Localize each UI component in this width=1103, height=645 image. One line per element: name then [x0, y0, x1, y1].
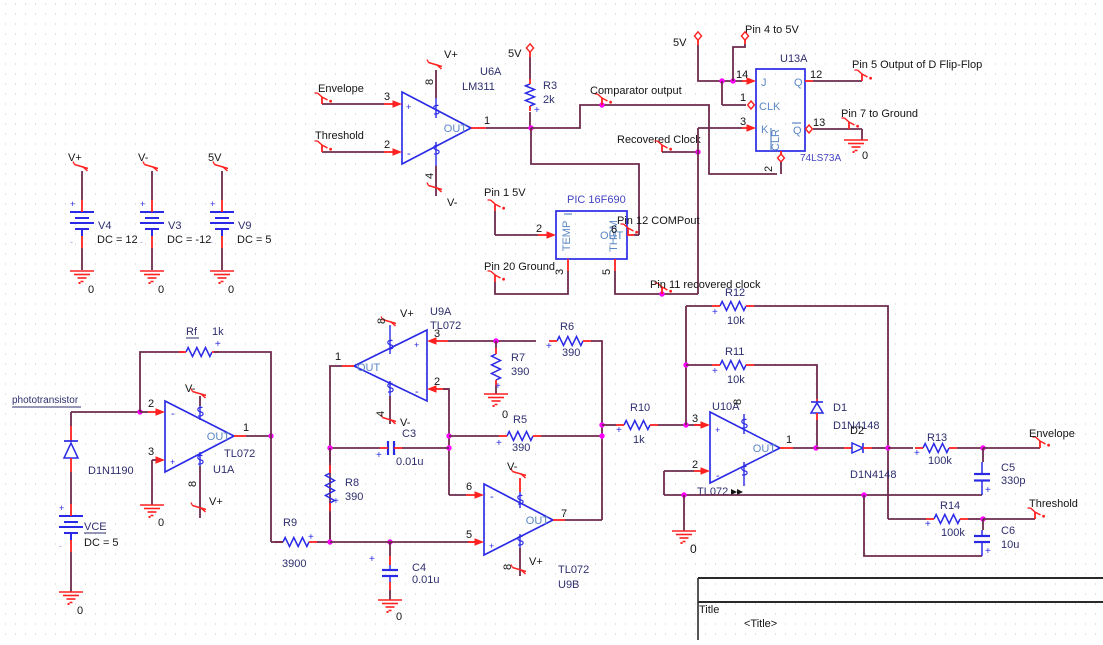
svg-text:Rf: Rf — [186, 326, 198, 338]
svg-text:R9: R9 — [283, 517, 297, 529]
svg-text:10u: 10u — [1001, 539, 1019, 551]
svg-text:+: + — [369, 554, 375, 565]
svg-text:3900: 3900 — [282, 558, 306, 570]
svg-text:6: 6 — [466, 481, 472, 493]
svg-text:V+: V+ — [444, 49, 458, 61]
svg-text:CLR: CLR — [770, 129, 782, 151]
svg-text:3: 3 — [554, 269, 566, 275]
svg-text:phototransistor: phototransistor — [12, 395, 79, 406]
svg-text:+: + — [210, 199, 215, 209]
svg-text:+: + — [376, 450, 382, 461]
svg-text:+: + — [715, 425, 720, 435]
svg-text:7: 7 — [561, 508, 567, 520]
svg-text:-: - — [210, 237, 213, 247]
svg-text:390: 390 — [511, 366, 529, 378]
svg-text:13: 13 — [813, 117, 825, 129]
svg-text:R10: R10 — [630, 402, 650, 414]
svg-text:+: + — [59, 503, 64, 513]
svg-text:+: + — [140, 199, 145, 209]
svg-text:Recovered Clock: Recovered Clock — [617, 134, 701, 146]
svg-text:U1A: U1A — [213, 464, 235, 476]
svg-text:V+: V+ — [400, 308, 414, 320]
svg-text:+: + — [215, 339, 221, 350]
svg-text:U13A: U13A — [780, 53, 808, 65]
svg-text:0: 0 — [158, 284, 164, 296]
svg-text:Pin 1 5V: Pin 1 5V — [484, 187, 526, 199]
svg-text:8: 8 — [424, 79, 436, 85]
svg-text:14: 14 — [736, 69, 748, 81]
svg-text:V3: V3 — [168, 220, 181, 232]
svg-text:0: 0 — [690, 542, 697, 556]
svg-text:Pin 7 to Ground: Pin 7 to Ground — [841, 108, 918, 120]
svg-text:Pin 4 to 5V: Pin 4 to 5V — [745, 24, 799, 36]
svg-text:0: 0 — [228, 284, 234, 296]
svg-text:OUT: OUT — [753, 443, 777, 455]
svg-text:+: + — [712, 366, 718, 377]
svg-text:R14: R14 — [940, 500, 960, 512]
svg-text:8: 8 — [376, 318, 388, 324]
svg-text:2k: 2k — [543, 94, 555, 106]
svg-text:R8: R8 — [345, 477, 359, 489]
svg-text:TL072: TL072 — [558, 564, 589, 576]
svg-text:3: 3 — [740, 116, 746, 128]
svg-text:5V: 5V — [208, 152, 222, 164]
svg-text:3: 3 — [434, 328, 440, 340]
svg-text:2: 2 — [434, 376, 440, 388]
svg-text:+: + — [70, 199, 75, 209]
svg-text:5: 5 — [601, 269, 613, 275]
svg-text:K: K — [761, 124, 769, 136]
svg-text:Threshold: Threshold — [315, 130, 364, 142]
svg-text:-: - — [70, 237, 73, 247]
svg-text:R13: R13 — [927, 432, 947, 444]
svg-text:+: + — [414, 340, 419, 350]
svg-text:V+: V+ — [209, 496, 223, 508]
svg-text:390: 390 — [345, 491, 363, 503]
svg-text:0: 0 — [88, 284, 94, 296]
svg-text:0: 0 — [502, 409, 508, 421]
svg-text:TL072: TL072 — [224, 448, 255, 460]
svg-text:Comparator output: Comparator output — [590, 85, 682, 97]
svg-text:+: + — [333, 496, 339, 507]
svg-text:4: 4 — [375, 411, 387, 417]
svg-text:Envelope: Envelope — [318, 83, 364, 95]
svg-text:+: + — [985, 546, 991, 557]
svg-text:R7: R7 — [511, 352, 525, 364]
svg-text:0: 0 — [862, 150, 868, 162]
svg-text:VCE: VCE — [84, 521, 107, 533]
svg-text:+: + — [616, 425, 622, 436]
svg-text:D1N1190: D1N1190 — [88, 465, 134, 477]
svg-text:-: - — [490, 491, 494, 503]
svg-text:+: + — [985, 485, 991, 496]
svg-text:4: 4 — [424, 173, 436, 179]
svg-text:Title: Title — [699, 604, 719, 616]
svg-text:PIC 16F690: PIC 16F690 — [567, 194, 626, 206]
svg-text:U9B: U9B — [558, 579, 579, 591]
svg-text:8: 8 — [187, 481, 199, 487]
svg-text:-: - — [407, 148, 411, 160]
svg-text:OUT: OUT — [357, 362, 381, 374]
svg-text:1: 1 — [335, 351, 341, 363]
svg-text:+: + — [170, 457, 175, 467]
svg-text:+: + — [914, 448, 920, 459]
svg-text:Threshold: Threshold — [1029, 498, 1078, 510]
svg-text:1k: 1k — [212, 326, 224, 338]
svg-text:CLK: CLK — [759, 101, 781, 113]
svg-text:-: - — [716, 470, 720, 482]
svg-text:8: 8 — [732, 399, 744, 405]
svg-text:-: - — [59, 541, 62, 551]
svg-text:TEMP: TEMP — [561, 221, 573, 252]
svg-text:0: 0 — [158, 517, 164, 529]
svg-text:390: 390 — [562, 347, 580, 359]
svg-text:+: + — [534, 105, 540, 116]
svg-text:OUT: OUT — [444, 123, 468, 135]
svg-text:100k: 100k — [928, 455, 952, 467]
svg-text:1: 1 — [484, 115, 490, 127]
svg-text:1: 1 — [786, 434, 792, 446]
svg-text:U9A: U9A — [430, 306, 452, 318]
svg-text:2: 2 — [763, 166, 775, 172]
svg-text:1: 1 — [740, 92, 746, 104]
svg-text:V+: V+ — [529, 556, 543, 568]
svg-text:Envelope: Envelope — [1029, 428, 1075, 440]
svg-text:OUT: OUT — [526, 515, 550, 527]
svg-text:D1: D1 — [833, 402, 847, 414]
svg-text:<Title>: <Title> — [744, 618, 777, 630]
svg-text:-: - — [140, 237, 143, 247]
svg-text:R11: R11 — [725, 346, 744, 358]
svg-text:Pin 12 COMPout: Pin 12 COMPout — [617, 215, 700, 227]
svg-text:V-: V- — [185, 383, 196, 395]
svg-text:Pin 20 Ground: Pin 20 Ground — [484, 261, 555, 273]
svg-text:1: 1 — [243, 422, 249, 434]
svg-text:0: 0 — [396, 611, 402, 623]
svg-text:Q: Q — [794, 77, 803, 89]
svg-text:2: 2 — [536, 223, 542, 235]
svg-text:DC = 5: DC = 5 — [84, 537, 119, 549]
svg-text:12: 12 — [810, 69, 822, 81]
svg-text:-: - — [415, 386, 419, 398]
svg-text:C5: C5 — [1001, 462, 1015, 474]
svg-text:2: 2 — [692, 459, 698, 471]
svg-text:+: + — [308, 532, 314, 543]
svg-text:LM311: LM311 — [462, 81, 495, 93]
svg-text:D1N4148: D1N4148 — [850, 469, 896, 481]
svg-text:10k: 10k — [727, 315, 745, 327]
svg-text:OUT: OUT — [207, 431, 231, 443]
svg-text:3: 3 — [692, 413, 698, 425]
svg-text:Pin 5 Output of D Flip-Flop: Pin 5 Output of D Flip-Flop — [852, 59, 982, 71]
svg-text:DC = 12: DC = 12 — [97, 234, 138, 246]
svg-text:V4: V4 — [98, 220, 111, 232]
svg-text:C6: C6 — [1001, 525, 1015, 537]
svg-text:V-: V- — [447, 197, 458, 209]
svg-text:Q: Q — [793, 125, 802, 137]
svg-text:2: 2 — [148, 398, 154, 410]
svg-text:5V: 5V — [673, 37, 687, 49]
svg-text:U6A: U6A — [480, 66, 502, 78]
svg-text:+: + — [489, 541, 494, 551]
svg-text:DC = -12: DC = -12 — [167, 234, 211, 246]
svg-text:5: 5 — [466, 529, 472, 541]
svg-text:R6: R6 — [560, 321, 574, 333]
svg-text:C3: C3 — [402, 428, 416, 440]
svg-text:R12: R12 — [725, 287, 745, 299]
svg-text:-: - — [171, 408, 175, 420]
svg-text:V9: V9 — [238, 220, 251, 232]
svg-text:0: 0 — [77, 605, 83, 617]
svg-text:R3: R3 — [543, 80, 557, 92]
svg-text:C4: C4 — [412, 562, 426, 574]
svg-text:3: 3 — [148, 446, 154, 458]
svg-text:+: + — [546, 341, 552, 352]
svg-text:J: J — [761, 77, 767, 89]
svg-text:+: + — [712, 307, 718, 318]
svg-text:TL072: TL072 — [697, 486, 728, 498]
svg-text:0.01u: 0.01u — [396, 456, 424, 468]
svg-text:2: 2 — [384, 139, 390, 151]
svg-text:330p: 330p — [1001, 475, 1025, 487]
svg-text:R5: R5 — [513, 414, 527, 426]
svg-text:3: 3 — [384, 91, 390, 103]
svg-text:74LS73A: 74LS73A — [800, 153, 841, 164]
svg-text:V+: V+ — [68, 152, 82, 164]
svg-text:DC = 5: DC = 5 — [237, 234, 272, 246]
svg-text:+: + — [925, 519, 931, 530]
svg-text:100k: 100k — [941, 527, 965, 539]
svg-text:+: + — [496, 438, 502, 449]
svg-text:390: 390 — [512, 442, 530, 454]
svg-text:+: + — [406, 102, 411, 112]
svg-text:10k: 10k — [727, 374, 745, 386]
svg-text:1k: 1k — [633, 434, 645, 446]
svg-text:5V: 5V — [508, 48, 522, 60]
svg-text:0.01u: 0.01u — [412, 574, 440, 586]
svg-text:V-: V- — [507, 461, 518, 473]
svg-text:D2: D2 — [850, 425, 864, 437]
svg-text:8: 8 — [502, 564, 514, 570]
